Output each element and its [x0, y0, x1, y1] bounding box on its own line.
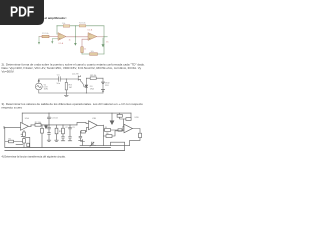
op-amp U1	[58, 33, 66, 41]
wire: top rail to gate	[60, 78, 78, 80]
svg-text:U1:A: U1:A	[59, 42, 64, 45]
source V1	[35, 83, 42, 90]
hanger caps x49	[47, 125, 51, 141]
wire: bus jog up to U1B	[77, 122, 89, 125]
resistor R2	[63, 25, 70, 27]
wire: input left	[39, 36, 42, 38]
svg-text:15V: 15V	[105, 85, 109, 87]
wire: top feedback run	[57, 25, 104, 27]
svg-text:U2B: U2B	[135, 117, 140, 119]
box on rail drop	[120, 113, 124, 119]
capacitor C1 from rail	[48, 113, 51, 125]
ground arrow under bus	[45, 124, 47, 127]
wire: mid bus	[31, 124, 77, 126]
ground mid tap	[74, 43, 77, 46]
svg-text:1M: 1M	[69, 87, 72, 89]
resistor R6	[90, 53, 98, 56]
svg-text:4) Determinar la funcion trans: 4) Determinar la funcion transferencia d…	[2, 155, 67, 158]
svg-text:Q1 2N: Q1 2N	[72, 74, 79, 76]
wire: U1 output to U2	[66, 36, 88, 38]
junction dots circuit 3	[49, 113, 50, 114]
ground arrow from rail	[111, 113, 113, 121]
diode D1	[85, 85, 88, 87]
op-amp U1B	[89, 121, 98, 130]
transistor Q1 body	[23, 132, 26, 136]
resistor RG	[65, 82, 67, 90]
wire: vertical below U1A	[23, 130, 25, 147]
wire: bottom rail A	[5, 146, 111, 148]
resistor R1	[9, 140, 14, 143]
svg-text:U1A: U1A	[25, 117, 30, 120]
wire: U2B output loop	[130, 129, 140, 146]
wire: bottom rail	[39, 92, 103, 94]
wire: input bottom	[5, 141, 23, 143]
svg-text:1kHz: 1kHz	[44, 89, 49, 91]
transistor Q2 body	[23, 139, 26, 143]
wire: U1 + input ground	[52, 39, 58, 41]
svg-text:R5: R5	[105, 127, 107, 129]
resistor on lower input	[81, 130, 85, 133]
junction dots circuit 2	[66, 79, 67, 80]
wire: left vertical	[4, 127, 6, 141]
svg-text:RD 5k: RD 5k	[90, 75, 97, 77]
battery VDD	[101, 82, 104, 84]
hanger resistor x56.5	[55, 125, 59, 141]
resistor R5	[81, 47, 84, 53]
svg-text:respecto a cero: respecto a cero	[2, 106, 23, 110]
svg-text:Dato: Vpp=20V, f=1kHz, Vth=-4V: Dato: Vpp=20V, f=1kHz, Vth=-4V, Tamb=25C…	[2, 66, 142, 70]
wire: loop right	[111, 142, 125, 150]
wire: source up lead	[38, 79, 40, 83]
svg-text:U1B: U1B	[92, 118, 97, 120]
capacitor plus glyph	[81, 140, 85, 146]
wire: right vertical	[102, 78, 104, 93]
ground	[64, 93, 68, 97]
resistor Rf	[124, 113, 131, 126]
wire: U1A output jog	[29, 125, 32, 126]
svg-text:C2: C2	[65, 127, 67, 129]
wire: lower long wire	[80, 144, 130, 146]
wire: bottom feedback run	[82, 53, 104, 55]
resistor Re	[27, 143, 30, 146]
svg-text:R4 10k: R4 10k	[79, 23, 87, 25]
resistor R2	[35, 124, 41, 127]
wire: input	[5, 126, 21, 128]
wire: Q1 source curve to diode	[81, 80, 87, 87]
svg-text:Vo=500V.: Vo=500V.	[2, 70, 15, 74]
svg-text:C1 104: C1 104	[51, 117, 58, 119]
wire: left drop to rails	[4, 142, 6, 148]
resistor R6	[103, 131, 124, 136]
svg-text:el amplificador:: el amplificador:	[45, 16, 67, 20]
wire: R1 to U1	[49, 36, 58, 38]
op-amp U2	[88, 33, 97, 41]
resistor R1	[42, 35, 49, 38]
svg-text:U2:A: U2:A	[88, 29, 93, 32]
wire: top rail	[22, 112, 131, 114]
wire: source down lead	[38, 90, 40, 93]
input terminal	[3, 126, 5, 128]
wire: feedback drop left	[21, 113, 23, 123]
svg-text:3). Determinar los valores de: 3). Determinar los valores de salida de …	[2, 102, 144, 106]
transistor Q1	[78, 76, 80, 81]
wire: to U2B upper input	[122, 126, 124, 130]
svg-text:R6: R6	[106, 133, 108, 135]
junction node dots	[74, 24, 77, 27]
small box before U2B	[118, 129, 122, 131]
wire: long vertical x42	[41, 125, 43, 147]
svg-text:R2 10k: R2 10k	[35, 122, 41, 124]
wire: right vertical output to feedback	[103, 26, 105, 54]
battery VSS	[101, 90, 104, 92]
hanger resistor+cap x63	[61, 125, 65, 141]
resistor RG leads	[65, 79, 67, 93]
op-amp U1A	[21, 122, 29, 130]
wire: base lead	[21, 133, 23, 135]
PDF badge	[0, 0, 44, 25]
resistor R5	[103, 129, 118, 131]
svg-text:C3: C3	[72, 127, 74, 129]
wire: R5 to bottom	[81, 53, 83, 54]
capacitor C1	[59, 77, 61, 82]
ground input	[38, 37, 40, 43]
polarity arrow	[38, 80, 39, 82]
resistor in loop	[139, 133, 142, 137]
wire: mid tap drop	[74, 26, 76, 43]
wire: diode branch vertical	[85, 78, 87, 93]
wire: top rail left	[39, 78, 59, 80]
wire: cluster side branch	[16, 137, 30, 148]
page background	[0, 0, 149, 198]
transistor glyph on lower wire	[90, 142, 94, 146]
hanger caps x70	[68, 125, 72, 141]
wire: U1B lower input network	[79, 128, 89, 141]
resistor RD	[90, 77, 96, 80]
wire: U1B output	[97, 125, 103, 145]
svg-text:R1 10k: R1 10k	[42, 33, 50, 35]
wire: bottom rail B	[5, 149, 125, 151]
resistor R4	[79, 25, 86, 27]
wire: top rail 2	[86, 77, 103, 79]
ground output	[102, 38, 104, 44]
op-amp U2B	[124, 124, 132, 133]
wire: U2 output	[97, 36, 104, 38]
resistor on x42	[41, 128, 44, 133]
wire: drop to U1 inverting input	[56, 26, 58, 34]
wire: output stub	[104, 36, 107, 38]
svg-text:PDF: PDF	[10, 3, 34, 20]
wire: U2 lower input to R5	[82, 39, 88, 47]
